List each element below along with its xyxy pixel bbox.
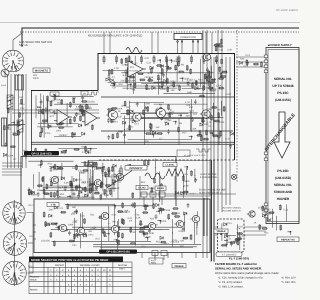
rotary switch SW1A xyxy=(2,50,24,72)
svg-text:R52: R52 xyxy=(156,241,161,244)
svg-text:2SC458: 2SC458 xyxy=(86,100,95,103)
svg-text:C14: C14 xyxy=(76,185,81,188)
top harness parts: component cluster xyxy=(214,39,224,52)
board outline: reverberation unit PCB xyxy=(98,54,235,161)
svg-text:4R4: 4R4 xyxy=(33,74,38,77)
svg-text:R17: R17 xyxy=(189,106,194,109)
svg-text:4.7K: 4.7K xyxy=(185,101,190,104)
svg-text:33K: 33K xyxy=(95,191,100,194)
wire: short drops from dashed line to board xyxy=(104,32,212,54)
svg-text:TA7205P: TA7205P xyxy=(129,70,138,73)
wire: heavy bus pair x204-207 xyxy=(203,198,205,236)
svg-text:C14: C14 xyxy=(190,79,195,82)
svg-text:R21: R21 xyxy=(96,238,101,241)
svg-text:33K: 33K xyxy=(150,232,155,235)
svg-text:3: 3 xyxy=(16,265,17,268)
harness stubs: component cluster xyxy=(199,67,233,148)
svg-text:0.22: 0.22 xyxy=(70,189,75,192)
connector: jack boxes lower xyxy=(152,251,167,261)
wire: left bus into OP-13 xyxy=(2,163,22,175)
svg-text:4.7K: 4.7K xyxy=(207,121,212,124)
wire: links to power supply xyxy=(236,57,266,67)
svg-text:6.8K: 6.8K xyxy=(76,105,81,108)
svg-text:(reel): (reel) xyxy=(1,84,6,87)
svg-text:*5. C40, 005: *5. C40, 005 xyxy=(281,281,296,284)
svg-text:OP-15/OP-14B/P.S: OP-15/OP-14B/P.S xyxy=(276,9,298,12)
svg-text:VR3: VR3 xyxy=(59,134,64,137)
svg-text:0.01: 0.01 xyxy=(112,213,117,216)
svg-text:C31: C31 xyxy=(176,212,181,215)
svg-text:C22: C22 xyxy=(170,110,175,113)
svg-text:R44: R44 xyxy=(37,189,42,192)
svg-text:VR3: VR3 xyxy=(164,242,169,245)
inductor: spring line xyxy=(196,149,211,152)
svg-text:100K: 100K xyxy=(157,72,163,75)
svg-text:SERIAL NO.: SERIAL NO. xyxy=(274,183,292,187)
svg-text:100K: 100K xyxy=(160,88,166,91)
wire: board bus lines xyxy=(31,97,234,144)
svg-text:1: 1 xyxy=(10,206,11,209)
svg-text:2.2K: 2.2K xyxy=(227,48,232,51)
wire: verticals OP-13 to OP-14B xyxy=(44,176,175,199)
svg-text:3: 3 xyxy=(15,205,16,208)
svg-text:15K: 15K xyxy=(176,84,181,87)
inductor: line-in curl xyxy=(126,48,142,53)
svg-text:5: 5 xyxy=(20,209,21,212)
svg-text:2SC458: 2SC458 xyxy=(144,76,153,79)
svg-text:0.01: 0.01 xyxy=(81,171,86,174)
svg-text:560: 560 xyxy=(49,208,54,211)
svg-text:1: 1 xyxy=(10,265,11,268)
left strip parts: component cluster xyxy=(3,99,26,159)
svg-text:144 4: 144 4 xyxy=(151,262,157,265)
svg-text:R17: R17 xyxy=(126,106,131,109)
svg-text:BASS: BASS xyxy=(157,187,164,190)
svg-text:2.2K: 2.2K xyxy=(18,96,23,99)
svg-text:100u: 100u xyxy=(170,80,176,83)
svg-text:R44: R44 xyxy=(198,79,203,82)
svg-text:ONLY: ONLY xyxy=(119,267,125,270)
svg-text:470p: 470p xyxy=(61,152,67,155)
svg-text:0.01: 0.01 xyxy=(245,54,250,57)
svg-text:3.3K: 3.3K xyxy=(136,217,141,220)
board outline: OP-14B xyxy=(34,199,210,253)
connector: PS edge pins xyxy=(264,55,268,218)
svg-text:2.2K: 2.2K xyxy=(114,67,119,70)
svg-text:3: 3 xyxy=(19,277,20,280)
op-amp IC1 TA7205P xyxy=(125,61,146,77)
svg-text:15K: 15K xyxy=(216,45,221,48)
svg-text:2.2K: 2.2K xyxy=(180,191,185,194)
wire: left strip verticals xyxy=(8,74,27,168)
transistor Q303 xyxy=(99,212,108,219)
svg-text:VOLUME SWITCH: VOLUME SWITCH xyxy=(222,209,241,212)
svg-text:5: 5 xyxy=(20,269,21,272)
svg-text:m: m xyxy=(84,92,86,95)
wire: mid horizontal links xyxy=(140,193,236,195)
svg-text:2SC458: 2SC458 xyxy=(120,80,129,83)
svg-text:9: 9 xyxy=(6,57,7,60)
table: mode selector grid xyxy=(29,262,132,294)
wire: heavy bus pair x211-214 xyxy=(211,160,213,261)
svg-text:3: 3 xyxy=(16,55,17,58)
svg-text:470p: 470p xyxy=(45,132,51,135)
table: cell marks xyxy=(50,274,111,292)
reverb board upper-right extra: component cluster xyxy=(158,68,228,95)
svg-text:7: 7 xyxy=(8,216,9,219)
svg-text:(A) ECHO CANCEL: (A) ECHO CANCEL xyxy=(222,207,242,210)
table: position numbers xyxy=(50,269,112,272)
svg-text:1K: 1K xyxy=(254,221,257,224)
label: REPEAT RATE xyxy=(277,237,299,242)
svg-text:470p: 470p xyxy=(75,113,81,116)
label: board id strip xyxy=(216,252,242,257)
svg-text:REVERB: REVERB xyxy=(118,264,128,267)
reverb board upper parts: component cluster xyxy=(102,56,224,94)
svg-text:R52: R52 xyxy=(141,181,146,184)
svg-text:FILTER BOARD FL-7 added for: FILTER BOARD FL-7 added for xyxy=(215,262,258,266)
wire: bold bus y90.5 xyxy=(31,90,98,92)
wire: left board edge x31.5 xyxy=(31,91,33,157)
svg-text:220K: 220K xyxy=(184,180,190,183)
wire: dashed chassis boundary top xyxy=(20,31,299,33)
svg-text:HIGHER: HIGHER xyxy=(277,197,290,201)
label: 4-TRK head xyxy=(47,203,59,207)
svg-text:100u: 100u xyxy=(56,129,62,132)
wire: dial link bus xyxy=(27,213,37,274)
wire: bus pair y110 xyxy=(12,109,99,111)
svg-text:▸POWER SUPPLY: ▸POWER SUPPLY xyxy=(267,43,292,47)
svg-text:Heads: Heads xyxy=(30,279,37,282)
transistor Q305 xyxy=(146,222,155,229)
svg-text:OP-14B (146-014B): OP-14B (146-014B) xyxy=(106,251,129,254)
svg-text:R52: R52 xyxy=(118,83,123,86)
svg-text:470p: 470p xyxy=(41,122,47,125)
svg-text:SLIDE SWITCH S/T 2: SLIDE SWITCH S/T 2 xyxy=(199,192,222,195)
wire: dashed run x237 xyxy=(236,30,238,182)
svg-text:C31: C31 xyxy=(72,97,77,100)
label: OP-14B board id xyxy=(99,250,137,254)
transistor Q105 xyxy=(201,53,210,60)
transistor Q102 xyxy=(131,113,141,121)
OP-13 parts: component cluster xyxy=(28,160,116,200)
OP-13 mid extra: component cluster xyxy=(81,162,116,195)
svg-text:2SC458: 2SC458 xyxy=(161,209,170,212)
svg-text:3: 3 xyxy=(16,65,17,68)
lamp DS1 xyxy=(231,174,236,179)
svg-text:R52: R52 xyxy=(141,246,146,249)
svg-text:C31: C31 xyxy=(72,244,77,247)
svg-text:3: 3 xyxy=(18,217,19,220)
playback head PB1 (tall) xyxy=(2,118,7,146)
svg-text:1uF: 1uF xyxy=(168,119,173,122)
transistor Q104 xyxy=(200,110,210,118)
svg-text:R17: R17 xyxy=(182,132,187,135)
transistor Q103 xyxy=(154,108,165,117)
label: TREBLE xyxy=(214,229,228,233)
wire: connector pins xyxy=(177,40,199,55)
svg-text:4.7K: 4.7K xyxy=(100,183,105,186)
svg-text:R21: R21 xyxy=(264,232,269,235)
svg-text:50KB: 50KB xyxy=(33,77,39,80)
svg-text:R21: R21 xyxy=(48,222,53,225)
label: L-LEVEL (REV) xyxy=(163,163,177,167)
right mid harness parts: component cluster xyxy=(175,166,197,198)
svg-text:INTENSITY: INTENSITY xyxy=(129,167,142,170)
svg-text:120K: 120K xyxy=(62,186,68,189)
svg-text:5: 5 xyxy=(11,66,12,69)
wire: switch to bus xyxy=(13,33,22,50)
svg-text:10K: 10K xyxy=(180,239,185,242)
svg-text:FL-7 (146-007): FL-7 (146-007) xyxy=(229,257,249,261)
svg-text:1uF: 1uF xyxy=(155,126,160,129)
svg-text:REPEAT: REPEAT xyxy=(55,264,65,267)
note: FL-7 change history xyxy=(215,262,280,275)
svg-text:100K: 100K xyxy=(172,60,178,63)
wire: links bars to PS xyxy=(215,227,266,235)
label: m box xyxy=(81,91,88,95)
svg-text:2.2K: 2.2K xyxy=(145,88,150,91)
svg-text:TO: TO xyxy=(262,208,265,211)
label: TREBLE (lower) xyxy=(172,264,186,268)
svg-text:9: 9 xyxy=(7,241,8,244)
svg-text:2.2K: 2.2K xyxy=(71,132,76,135)
svg-text:5: 5 xyxy=(13,219,14,222)
panel outline: mode control xyxy=(88,161,210,197)
OP-14B parts: component cluster xyxy=(43,202,201,250)
svg-text:15K: 15K xyxy=(101,193,106,196)
svg-text:C31: C31 xyxy=(173,239,178,242)
svg-text:6.8K: 6.8K xyxy=(123,74,128,77)
rotary switch SW2C xyxy=(3,261,27,285)
svg-text:At the same time some partial: At the same time some partial change wer… xyxy=(215,271,280,275)
svg-text:C22: C22 xyxy=(48,100,53,103)
svg-text:R21: R21 xyxy=(150,218,155,221)
transistor Q307 xyxy=(190,215,199,222)
svg-text:0.047: 0.047 xyxy=(237,226,244,229)
svg-text:MODE SELECTOR POSITION vs ACTI: MODE SELECTOR POSITION vs ACTIVATED PB H… xyxy=(31,258,109,262)
bias trap symbol (hatched) xyxy=(17,120,23,132)
svg-text:MAGNETS: MAGNETS xyxy=(35,69,48,72)
svg-text:560: 560 xyxy=(72,206,77,209)
OP-13 right sparse: component cluster xyxy=(127,159,162,203)
svg-text:7: 7 xyxy=(8,276,9,279)
svg-text:100u: 100u xyxy=(88,234,94,237)
svg-text:PS-15D: PS-15D xyxy=(277,169,289,173)
svg-text:1uF: 1uF xyxy=(164,121,169,124)
svg-text:5: 5 xyxy=(13,250,14,253)
svg-text:R21: R21 xyxy=(50,115,55,118)
svg-text:6.8K: 6.8K xyxy=(81,145,86,148)
svg-text:R52: R52 xyxy=(130,76,135,79)
resistor row R101-R110 along board top xyxy=(103,55,218,64)
wire: drops below OP-14B xyxy=(142,253,196,259)
svg-text:1: 1 xyxy=(11,236,12,239)
svg-text:7: 7 xyxy=(8,247,9,250)
svg-text:470p: 470p xyxy=(146,236,152,239)
band under bus: component cluster xyxy=(35,146,97,155)
label: OP-13 board xyxy=(24,151,59,155)
op-amp U3 xyxy=(82,111,100,126)
svg-text:1: 1 xyxy=(19,60,20,63)
svg-text:33K: 33K xyxy=(192,128,197,131)
svg-text:0.01: 0.01 xyxy=(58,207,63,210)
svg-text:SERIAL NO. 587293 AND HIGHER.: SERIAL NO. 587293 AND HIGHER. xyxy=(215,267,262,271)
svg-text:UP TO 578648: UP TO 578648 xyxy=(272,84,293,88)
svg-text:0.047: 0.047 xyxy=(265,208,272,211)
svg-text:TREBLE: TREBLE xyxy=(216,230,226,233)
mid-left amp parts: component cluster xyxy=(36,93,98,137)
svg-text:L-LEVEL: L-LEVEL xyxy=(165,164,175,167)
reverb board lower parts: component cluster xyxy=(107,99,223,145)
svg-text:120K: 120K xyxy=(216,85,222,88)
svg-text:470p: 470p xyxy=(104,173,110,176)
svg-text:100K: 100K xyxy=(72,167,78,170)
node: PS-15D serial text xyxy=(274,169,293,201)
ps lower parts: component cluster xyxy=(259,204,291,234)
transistor Q101 xyxy=(106,110,117,119)
junction box under board xyxy=(149,258,163,264)
svg-text:Playback: Playback xyxy=(30,276,40,279)
svg-text:1K: 1K xyxy=(118,110,121,113)
svg-text:0.22: 0.22 xyxy=(125,211,130,214)
svg-text:5: 5 xyxy=(21,239,22,242)
connector J1 xyxy=(174,34,202,40)
svg-text:10K: 10K xyxy=(57,196,62,199)
svg-text:R17: R17 xyxy=(87,181,92,184)
svg-text:4.7K: 4.7K xyxy=(152,133,157,136)
board outline: FL-7 (dashed) xyxy=(218,219,245,252)
FL-7 parts: component cluster xyxy=(220,223,243,250)
svg-text:R44: R44 xyxy=(240,58,245,61)
waveform: triangle xyxy=(166,169,184,176)
svg-text:C31: C31 xyxy=(227,222,232,225)
svg-text:1K: 1K xyxy=(151,85,154,88)
svg-text:C22: C22 xyxy=(147,62,152,65)
svg-text:R21: R21 xyxy=(57,102,62,105)
svg-text:4.7K: 4.7K xyxy=(84,194,89,197)
svg-text:PS-15C: PS-15C xyxy=(277,91,289,95)
svg-text:1: 1 xyxy=(20,212,21,215)
rotary switch SW2B xyxy=(3,232,27,256)
svg-text:OP-13 (146-013): OP-13 (146-013) xyxy=(31,152,51,155)
svg-text:C22: C22 xyxy=(205,73,210,76)
svg-text:C14: C14 xyxy=(134,122,139,125)
svg-text:470p: 470p xyxy=(45,192,51,195)
switch: mode lever xyxy=(107,171,132,189)
capacitor label 1uF xyxy=(50,92,59,96)
svg-text:*1. C26, formerly 100p changed: *1. C26, formerly 100p changed to 47p. xyxy=(218,277,264,280)
board outline: power supply (double border) xyxy=(266,48,299,224)
svg-text:R44: R44 xyxy=(189,110,194,113)
svg-text:SW-3: SW-3 xyxy=(29,235,35,238)
node: PS-15C serial text xyxy=(272,77,293,102)
svg-text:578649 AND: 578649 AND xyxy=(274,190,293,194)
svg-text:3: 3 xyxy=(17,235,18,238)
svg-text:C22: C22 xyxy=(20,107,25,110)
table: mode selector header xyxy=(29,257,123,263)
svg-text:220K: 220K xyxy=(206,108,212,111)
svg-text:R44: R44 xyxy=(234,240,239,243)
svg-text:100u: 100u xyxy=(84,149,90,152)
svg-text:SERIAL NO.: SERIAL NO. xyxy=(274,77,292,81)
svg-text:120K: 120K xyxy=(184,78,190,81)
svg-text:3: 3 xyxy=(19,248,20,251)
svg-text:4.7K: 4.7K xyxy=(144,57,149,60)
svg-text:ECHO: ECHO xyxy=(139,187,146,190)
svg-text:9: 9 xyxy=(7,270,8,273)
svg-text:0.047: 0.047 xyxy=(190,193,197,196)
transistor Q301 xyxy=(57,224,66,231)
svg-text:1: 1 xyxy=(22,242,23,245)
wire: dial column stem xyxy=(13,200,15,286)
transistor Q302 xyxy=(75,227,84,234)
svg-text:(146-015D): (146-015D) xyxy=(275,176,291,180)
svg-text:5: 5 xyxy=(13,279,14,282)
svg-text:6.8K: 6.8K xyxy=(110,84,115,87)
mode panel parts: component cluster xyxy=(100,166,117,197)
svg-text:C22: C22 xyxy=(193,113,198,116)
waveform: square wave xyxy=(89,92,99,95)
label: ECHO xyxy=(136,186,148,190)
arrow: interchangeable (hollow) xyxy=(274,112,290,158)
op-amp U2 xyxy=(54,110,72,125)
svg-text:0.22: 0.22 xyxy=(210,89,215,92)
svg-text:4-TR: 4-TR xyxy=(50,204,55,207)
svg-text:REVERB + ECHO: REVERB + ECHO xyxy=(80,264,100,267)
svg-text:0.047: 0.047 xyxy=(29,194,36,197)
svg-text:OUTPUT: OUTPUT xyxy=(262,211,272,214)
transistor Q202 xyxy=(92,179,101,186)
transistor Q201 xyxy=(114,173,123,180)
node: ground note box xyxy=(177,150,190,157)
svg-text:33K: 33K xyxy=(186,115,191,118)
svg-text:120K: 120K xyxy=(118,130,124,133)
svg-text:R21: R21 xyxy=(90,214,95,217)
svg-text:R21: R21 xyxy=(139,223,144,226)
erase head L1 xyxy=(16,75,24,90)
transistor Q203 xyxy=(49,176,58,183)
svg-text:0.047: 0.047 xyxy=(225,93,232,96)
svg-text:*3. R88, 1.5K omitted.: *3. R88, 1.5K omitted. xyxy=(218,286,244,289)
connector: jack row xyxy=(141,192,165,205)
label: INTENSITY xyxy=(125,166,147,171)
svg-text:C22: C22 xyxy=(90,166,95,169)
wire: right harness verticals xyxy=(203,30,230,262)
record head symbol (hatched) xyxy=(7,95,13,109)
svg-text:470p: 470p xyxy=(178,230,184,233)
svg-text:1: 1 xyxy=(21,272,22,275)
potentiometer VR5 xyxy=(118,165,122,178)
svg-text:120K: 120K xyxy=(200,82,206,85)
transistor Q304 xyxy=(109,225,118,232)
svg-text:SW 1A: SW 1A xyxy=(19,43,28,47)
svg-text:220K: 220K xyxy=(130,80,136,83)
svg-text:220K: 220K xyxy=(117,108,123,111)
svg-text:2.2K: 2.2K xyxy=(115,187,120,190)
svg-text:C14: C14 xyxy=(77,179,82,182)
svg-text:C31: C31 xyxy=(219,48,224,51)
svg-text:R21: R21 xyxy=(226,235,231,238)
scan artifact: faint rule y22 xyxy=(0,22,300,24)
svg-text:1: 1 xyxy=(11,53,12,56)
svg-text:2SC458: 2SC458 xyxy=(237,234,246,237)
svg-text:CONNECTOR: CONNECTOR xyxy=(180,36,196,39)
rotary switch SW1B (small) xyxy=(1,69,9,77)
svg-text:REVERBERATION UNIT, 4-3F (146-: REVERBERATION UNIT, 4-3F (146-011) xyxy=(88,34,142,38)
svg-text:VR3: VR3 xyxy=(170,84,175,87)
svg-text:100K: 100K xyxy=(145,102,151,105)
